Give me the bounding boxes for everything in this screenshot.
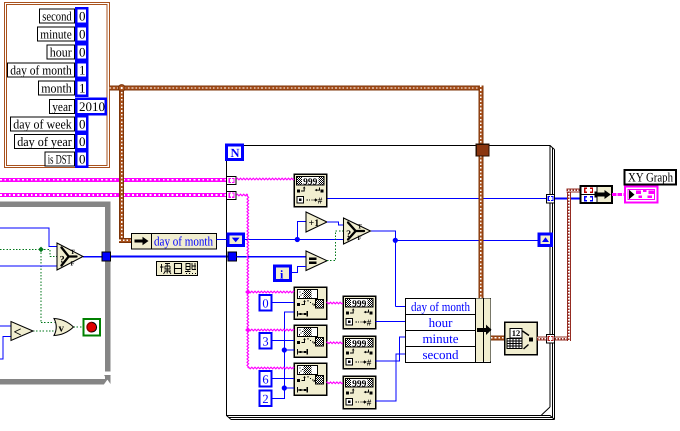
svg-text:0: 0	[79, 134, 86, 149]
svg-text:day of month: day of month	[154, 233, 213, 248]
svg-text:XY Graph: XY Graph	[628, 170, 673, 185]
svg-text:#: #	[367, 398, 372, 408]
svg-text:?: ?	[346, 229, 351, 240]
svg-text:day of month: day of month	[411, 299, 470, 314]
svg-text:0: 0	[79, 45, 86, 60]
svg-text:999: 999	[303, 177, 318, 187]
svg-text:month: month	[41, 81, 72, 96]
svg-text:v: v	[59, 323, 65, 335]
svg-text:hour: hour	[50, 45, 73, 60]
svg-text:F: F	[71, 261, 75, 268]
svg-text:1: 1	[79, 81, 86, 96]
svg-text:F: F	[358, 235, 362, 242]
svg-text:0: 0	[79, 152, 86, 167]
svg-text:+1: +1	[309, 218, 320, 229]
svg-text:2: 2	[262, 392, 268, 406]
svg-text:day of month: day of month	[10, 63, 72, 78]
svg-text:T: T	[71, 249, 76, 256]
svg-text:0: 0	[79, 27, 86, 42]
svg-text:day of year: day of year	[17, 134, 72, 149]
svg-text:999: 999	[352, 299, 367, 309]
svg-text:T: T	[358, 223, 363, 230]
svg-text:hour: hour	[429, 315, 454, 330]
svg-text:6: 6	[262, 372, 268, 386]
svg-text:N: N	[231, 146, 240, 160]
svg-text:12: 12	[512, 328, 521, 338]
svg-text:day of week: day of week	[13, 117, 72, 132]
svg-text:2010: 2010	[79, 99, 105, 114]
svg-text:3: 3	[262, 334, 268, 348]
svg-text:0: 0	[79, 117, 86, 132]
svg-text:minute: minute	[422, 331, 458, 346]
svg-text:#: #	[318, 196, 323, 206]
svg-text:?: ?	[60, 254, 65, 265]
svg-text:second: second	[422, 347, 459, 362]
svg-text:0: 0	[262, 296, 268, 310]
svg-text:minute: minute	[40, 27, 72, 42]
svg-text:0: 0	[79, 9, 86, 24]
svg-text:#: #	[367, 318, 372, 328]
svg-text:is DST: is DST	[48, 152, 72, 167]
svg-text:second: second	[42, 9, 72, 24]
svg-text:<: <	[14, 326, 22, 341]
svg-text:year: year	[52, 99, 72, 114]
svg-text:1: 1	[79, 63, 86, 78]
svg-text:999: 999	[352, 379, 367, 389]
svg-text:#: #	[367, 358, 372, 368]
svg-text:999: 999	[352, 339, 367, 349]
